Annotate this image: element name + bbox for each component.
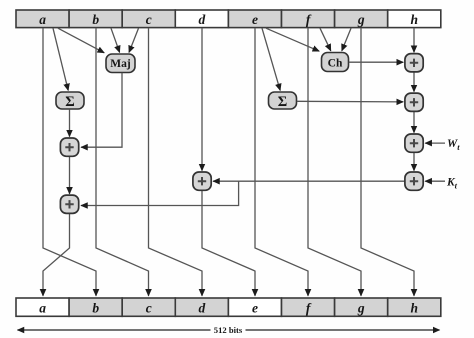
svg-text:d: d <box>199 300 206 315</box>
wire adder D output to bottom e <box>202 190 255 295</box>
wire e to Sigma1 <box>262 28 280 90</box>
wire c to Maj <box>129 28 139 52</box>
svg-text:Σ: Σ <box>65 94 74 110</box>
bottom register cell g <box>335 298 388 316</box>
top register cell h <box>388 10 441 28</box>
svg-text:a: a <box>39 12 46 27</box>
Sigma1 function box <box>269 92 297 110</box>
top register outline row <box>16 10 441 28</box>
wire old c down and shifted to bottom d <box>149 28 203 296</box>
wire old b down and shifted to bottom c <box>96 28 149 296</box>
adder H1 (h + Ch) <box>405 54 423 72</box>
wire T1 branch down and left into adder A2 <box>81 181 239 205</box>
adder H3 (+ Wt) <box>405 134 423 152</box>
Maj function box <box>106 54 135 73</box>
svg-text:h: h <box>411 12 419 27</box>
wire e to Ch <box>266 28 319 51</box>
wire Sigma0 output to adder A1 <box>69 109 71 136</box>
wire a to Sigma0 <box>53 28 68 90</box>
svg-text:c: c <box>146 300 152 315</box>
top register cell c <box>122 10 175 28</box>
adder D (d + T1 = new e) <box>193 172 211 190</box>
wire Sigma1 output to adder H2 <box>297 100 403 103</box>
svg-text:Maj: Maj <box>110 58 131 70</box>
top register cell g <box>335 10 388 28</box>
wire old a down and shifted to bottom b <box>43 28 96 296</box>
top register cell a <box>16 10 69 28</box>
wire b to Maj <box>111 28 120 52</box>
svg-text:Wt: Wt <box>447 138 460 152</box>
bottom register cell a <box>16 298 69 316</box>
svg-text:Σ: Σ <box>278 94 287 110</box>
top register cell b <box>69 10 122 28</box>
wire h column into adder H1 <box>413 28 415 52</box>
wire adder H1 to adder H2 <box>413 72 415 92</box>
bottom register cell h <box>388 298 441 316</box>
adder A2 (T2 + T1 = new a) <box>60 195 78 213</box>
wire adder H2 to adder H3 <box>413 112 415 133</box>
Sigma0 function box <box>56 92 84 110</box>
svg-text:512 bits: 512 bits <box>214 325 243 335</box>
wire d column into adder D <box>201 28 203 170</box>
top register cell d <box>175 10 228 28</box>
label Kt <box>446 176 458 190</box>
wire new a from adder A2 to bottom a <box>43 213 70 295</box>
svg-text:h: h <box>411 300 419 315</box>
svg-text:a: a <box>39 300 46 315</box>
top register cell e <box>228 10 281 28</box>
svg-text:g: g <box>357 300 365 315</box>
svg-text:b: b <box>92 12 99 27</box>
svg-text:Kt: Kt <box>446 176 458 190</box>
svg-text:d: d <box>199 12 206 27</box>
wire g to Ch <box>342 28 351 51</box>
Ch function box <box>322 53 349 72</box>
wire old e down and shifted to bottom f <box>255 28 308 296</box>
bottom register cell e <box>228 298 281 316</box>
wire Wt input arrow <box>425 142 445 144</box>
svg-text:g: g <box>357 12 365 27</box>
bottom register cell f <box>282 298 335 316</box>
adder H4 (+ Kt = T1) <box>405 172 423 190</box>
adder A1 (Sigma0 + Maj) <box>60 138 78 156</box>
svg-text:e: e <box>252 300 258 315</box>
top register cell f <box>282 10 335 28</box>
svg-text:c: c <box>146 12 152 27</box>
wire T1 from adder H4 left to adder D <box>213 180 405 182</box>
label Wt <box>447 138 460 152</box>
wire old f down and shifted to bottom g <box>308 28 361 296</box>
wire a to Maj <box>58 28 104 53</box>
adder H2 (+ Sigma1) <box>405 93 423 111</box>
wire Kt input arrow <box>425 180 445 182</box>
wire adder A1 to adder A2 <box>69 156 71 193</box>
svg-text:e: e <box>252 12 258 27</box>
bottom register cell d <box>175 298 228 316</box>
wire Ch output to adder H1 <box>349 61 403 63</box>
svg-text:Ch: Ch <box>328 57 343 69</box>
512 bits double arrow <box>18 325 440 335</box>
wire f to Ch <box>320 28 331 51</box>
wire old g down and shifted to bottom h <box>361 28 414 296</box>
wire Maj output down and left into adder A1 <box>81 73 122 147</box>
wire adder H3 to adder H4 <box>413 152 415 170</box>
bottom register cell b <box>69 298 122 316</box>
bottom register cell c <box>122 298 175 316</box>
svg-text:b: b <box>92 300 99 315</box>
